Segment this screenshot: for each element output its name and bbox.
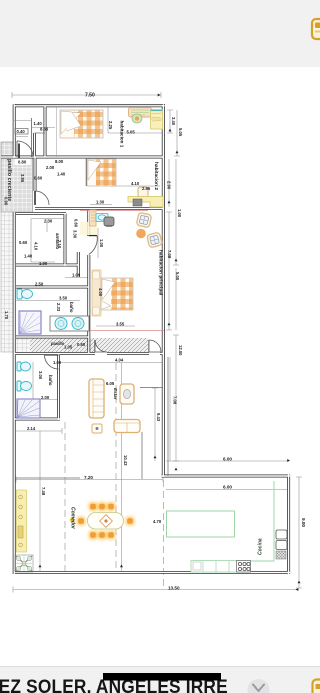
wall bath2 bottom [14, 418, 60, 421]
stove burners [237, 561, 251, 573]
vanity bath1 [50, 316, 89, 331]
svg-text:1.70: 1.70 [4, 311, 9, 320]
desk habitacion 1 [129, 108, 152, 124]
svg-text:pasillo creciente: pasillo creciente [6, 159, 12, 201]
armchair habitacion principal 1 [136, 212, 151, 227]
wall hab principal left [87, 210, 90, 353]
wall left outer [13, 104, 16, 574]
wall kitchen top [162, 475, 291, 478]
sofa 2seat estar [114, 420, 140, 433]
bottom owner label [0, 673, 320, 693]
wall bottom [14, 571, 290, 574]
svg-text:2.50: 2.50 [35, 282, 44, 287]
wall pasillo bottom [14, 352, 164, 355]
svg-text:1.40: 1.40 [34, 121, 43, 126]
kitchen sink units [276, 530, 287, 550]
door leaf top-left room [18, 144, 20, 159]
dim lines armario [31, 219, 65, 263]
door leaf hab2 [34, 191, 36, 205]
shower bath1 [19, 311, 41, 334]
svg-text:2.33: 2.33 [56, 303, 61, 312]
svg-text:7.20: 7.20 [84, 475, 93, 480]
dim line 2.50 bath [16, 287, 60, 289]
svg-text:6.05: 6.05 [106, 381, 115, 386]
wardrobe habitacion 1 [151, 110, 163, 130]
svg-text:10.43: 10.43 [123, 455, 128, 466]
wall divider hab1/hab2 [1, 156, 164, 159]
svg-text:3.95: 3.95 [20, 174, 25, 183]
wall bath1 top [16, 286, 90, 289]
svg-text:7.08: 7.08 [167, 250, 172, 259]
svg-text:3.50: 3.50 [59, 296, 68, 301]
svg-text:12.00: 12.00 [178, 345, 183, 356]
bed habitacion principal [101, 278, 133, 310]
dim line 4.04 [60, 362, 163, 364]
wall x34 stub [33, 133, 36, 157]
armchair habitacion principal 2 [147, 232, 163, 248]
svg-text:5.05: 5.05 [127, 130, 136, 135]
pasillo creciente floor tiles lower [1, 212, 14, 352]
shelf habitacion principal [90, 210, 97, 226]
svg-text:4.70: 4.70 [153, 519, 162, 524]
dim line 2.14 [16, 428, 62, 434]
door leaf pasillo right [148, 340, 150, 352]
pasillo creciente floor tiles upper [1, 142, 14, 158]
dim line 2.00 bath2 [30, 399, 58, 401]
svg-text:9.00: 9.00 [301, 518, 306, 527]
bed habitacion principal headboard [92, 270, 101, 316]
toilet bath2 [17, 381, 32, 391]
pasillo hatched floor [30, 338, 148, 352]
wall top-left room right [44, 106, 47, 158]
dim line 3.00 bath2 [32, 362, 34, 414]
kitchen counter right [191, 481, 274, 561]
dim line 1.30 [90, 204, 112, 206]
svg-text:5.05: 5.05 [178, 128, 183, 137]
svg-text:habitacion 1: habitacion 1 [120, 121, 125, 148]
svg-text:2.95: 2.95 [142, 186, 151, 191]
desk habitacion 2 yellow [128, 197, 163, 208]
dim line 1.00 [65, 277, 89, 279]
kitchen island [167, 511, 235, 537]
wall top outer [14, 104, 165, 107]
svg-text:2.14: 2.14 [27, 426, 36, 431]
door leaf pasillo left [94, 340, 96, 352]
wall armario bottom [16, 264, 78, 267]
door arc hab2 [35, 191, 49, 205]
plant comedor [15, 555, 33, 572]
door leaf bath2 [45, 354, 59, 356]
svg-text:0.90: 0.90 [4, 197, 9, 206]
door arc top-left room [17, 141, 33, 157]
svg-text:5.00: 5.00 [175, 272, 180, 281]
dim line 5.05 hab1 [108, 132, 164, 134]
bedside table habitacion 2 [138, 187, 148, 197]
dashed axis line kitchen x163.5 [163, 480, 165, 588]
svg-text:6.00: 6.00 [223, 485, 232, 490]
dim line 13.50 bottom [13, 587, 299, 593]
shower bath2 [17, 399, 40, 418]
dim line 1.00 vertical [97, 228, 99, 258]
svg-text:1.30: 1.30 [96, 200, 105, 205]
wall outer face lower right [142, 357, 168, 479]
svg-text:3.30: 3.30 [73, 230, 78, 239]
dashed axis line x76 [64, 422, 66, 572]
svg-text:7.48: 7.48 [41, 487, 46, 496]
dim line 7.20 [16, 477, 163, 483]
wall armario right [64, 214, 67, 267]
side table estar [92, 424, 102, 433]
svg-text:0.80: 0.80 [18, 160, 27, 165]
svg-text:0.40: 0.40 [17, 129, 26, 134]
svg-text:3.40: 3.40 [171, 117, 176, 126]
svg-text:1.00: 1.00 [99, 239, 104, 248]
dim line right 1.00 [173, 159, 179, 265]
kitchen counter bottom boxes [191, 561, 250, 573]
bottom-right icon [313, 680, 320, 693]
dim arrowheads [32, 129, 301, 584]
svg-text:0.60: 0.60 [74, 219, 79, 228]
dim line 6.00 upper [166, 460, 289, 462]
wall armario top [16, 212, 66, 215]
dim line 7.50 top [12, 92, 161, 98]
wall divider hab2 bottom [35, 207, 164, 210]
bed habitacion 1 [60, 110, 103, 138]
wall corridor [77, 252, 80, 277]
svg-text:2.25: 2.25 [108, 121, 113, 130]
bed habitacion 2 headboard [85, 158, 87, 186]
wall right of bedroom block [162, 104, 165, 477]
header band [0, 0, 320, 67]
dashed axis line x116 [115, 363, 117, 572]
dim line 1.40 room [32, 127, 55, 129]
red section line y330 [60, 330, 164, 332]
svg-text:habitacion 2: habitacion 2 [153, 162, 159, 190]
thin line estar hall [140, 387, 163, 389]
washbasin distribuidor [96, 214, 108, 222]
dining table comedor [88, 513, 124, 530]
wall bath1 bottom / pasillo top [16, 336, 90, 339]
wall bath2 right [57, 354, 60, 421]
washbasin bath2 [17, 362, 31, 371]
dim line 7.48 comedor [39, 431, 41, 572]
wall core lines (double-line effect) [14, 105, 165, 107]
top-left room 0.40 box [15, 129, 28, 135]
svg-text:1.40: 1.40 [57, 172, 66, 177]
svg-text:7.50: 7.50 [85, 93, 95, 99]
svg-text:2.90: 2.90 [167, 181, 172, 190]
svg-text:0.60: 0.60 [34, 176, 43, 181]
thin line hab1 subdivision [35, 132, 46, 134]
white patch for 0.80 dim [15, 159, 31, 166]
svg-text:4.00: 4.00 [98, 288, 103, 297]
svg-text:0.60: 0.60 [77, 342, 86, 347]
pasillo creciente floor tiles wide part [1, 158, 33, 212]
redaction bar and bottom icons [0, 666, 320, 693]
bottom band [0, 666, 320, 693]
dim line 9.43 [152, 388, 158, 461]
svg-text:baño: baño [69, 302, 74, 313]
dining chairs [77, 502, 135, 540]
collapse chevron button [248, 679, 270, 693]
svg-text:0.60: 0.60 [19, 240, 28, 245]
svg-text:2.30: 2.30 [44, 219, 53, 224]
dim line right 2.90 [168, 159, 170, 207]
wall hab2 left stub [34, 157, 37, 191]
dim line right 5.05 [174, 110, 180, 156]
svg-text:habitacion principal: habitacion principal [158, 250, 164, 295]
svg-text:Estar: Estar [113, 388, 118, 400]
wall kitchen right [287, 475, 290, 575]
kitchen hatched unit [276, 551, 286, 559]
svg-text:8.66: 8.66 [40, 127, 49, 132]
svg-text:4.04: 4.04 [115, 358, 124, 363]
dim line 3.55 [96, 325, 135, 327]
svg-text:7.08: 7.08 [173, 396, 178, 405]
svg-text:1.05: 1.05 [64, 345, 73, 350]
header icon top-right [306, 14, 320, 44]
svg-text:3.00: 3.00 [38, 371, 43, 380]
svg-text:2.00: 2.00 [46, 165, 55, 170]
door arc pasillo left [95, 340, 107, 352]
dim line right 7.08 [166, 212, 172, 330]
dim line 4.10 hab2 [110, 185, 160, 187]
dim line 4.00 bed [97, 280, 99, 315]
svg-text:Comedor: Comedor [70, 507, 76, 530]
sun symbol comedor [70, 518, 74, 522]
dim line 6.00 lower [166, 489, 289, 491]
sofa L estar [89, 379, 104, 418]
svg-text:8.00: 8.00 [55, 159, 64, 164]
svg-text:1.00: 1.00 [177, 209, 182, 218]
dim line 10.43 [121, 363, 123, 572]
door arc hab principal [89, 236, 97, 255]
dim line right 12.00 [173, 335, 179, 461]
svg-text:pasillo: pasillo [51, 341, 65, 346]
closet tint habitacion principal [80, 222, 97, 235]
svg-text:1.90: 1.90 [39, 261, 48, 266]
sideboard comedor yellow strip [17, 490, 27, 552]
svg-text:1.00: 1.00 [72, 273, 81, 278]
top-left room shelf line [14, 120, 32, 122]
armchair estar [120, 384, 134, 404]
tv habitacion principal [104, 217, 114, 226]
dim line right 5.00 [175, 268, 177, 330]
door arc pasillo right [149, 340, 161, 352]
svg-text:2.00: 2.00 [41, 395, 50, 400]
svg-text:2.10: 2.10 [57, 240, 62, 249]
dim line right 7.48 [169, 357, 171, 461]
svg-text:4.10: 4.10 [131, 181, 140, 186]
svg-text:9.43: 9.43 [156, 413, 161, 422]
dim line right 3.40 [167, 110, 173, 133]
hab1 closet line [56, 107, 58, 157]
dim line 2.25 vertical [107, 107, 109, 133]
svg-text:Cocina: Cocina [258, 538, 264, 555]
red section line y210 [80, 210, 148, 212]
svg-text:3.55: 3.55 [116, 322, 125, 327]
round table habitacion principal [136, 229, 146, 239]
bed habitacion 2 [87, 159, 116, 186]
svg-text:13.50: 13.50 [168, 586, 180, 591]
svg-text:1.40: 1.40 [24, 254, 33, 259]
dim line 9.00 right [296, 477, 302, 588]
svg-text:baño: baño [48, 375, 53, 386]
svg-text:6.00: 6.00 [223, 457, 232, 462]
thin line y478 left [16, 477, 80, 479]
door leaf hab principal [89, 235, 98, 237]
top-left room inner wall [31, 118, 33, 157]
door arc bath2 [45, 355, 59, 369]
svg-text:4.10: 4.10 [34, 242, 39, 251]
svg-text:1.00: 1.00 [53, 360, 62, 365]
toilet bath1 [17, 289, 33, 299]
dim line 3.50 bath [16, 300, 80, 302]
